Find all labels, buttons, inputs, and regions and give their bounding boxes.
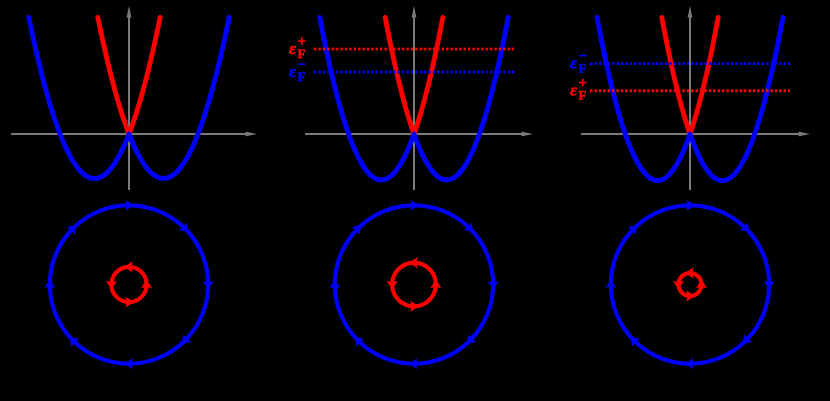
svg-text:ε: ε xyxy=(570,53,577,72)
svg-text:ε: ε xyxy=(570,81,577,100)
svg-text:ε: ε xyxy=(289,62,296,81)
svg-text:+: + xyxy=(298,34,307,50)
svg-text:+: + xyxy=(579,76,588,92)
svg-text:−: − xyxy=(298,57,307,73)
svg-text:−: − xyxy=(579,48,588,64)
svg-text:ε: ε xyxy=(289,39,296,58)
